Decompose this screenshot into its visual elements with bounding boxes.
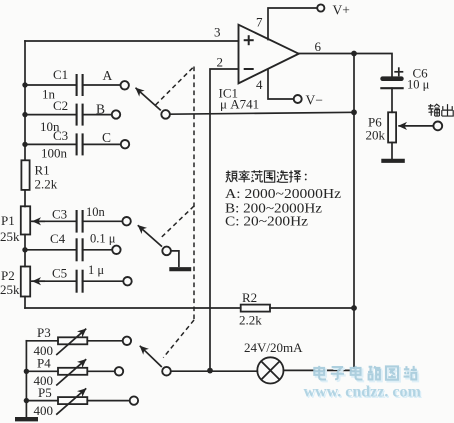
svg-text:24V/20mA: 24V/20mA <box>244 340 303 355</box>
svg-text:www. cndzz. com: www. cndzz. com <box>304 384 422 401</box>
svg-text:P5: P5 <box>38 385 52 400</box>
svg-text:10n: 10n <box>86 205 106 219</box>
svg-text:7: 7 <box>256 15 263 30</box>
svg-text:C2: C2 <box>53 98 68 113</box>
svg-text:μ A741: μ A741 <box>220 97 259 112</box>
svg-text:B: B <box>96 102 105 117</box>
svg-text:P1: P1 <box>1 213 15 228</box>
svg-text:C3: C3 <box>52 207 67 222</box>
svg-text:2.2k: 2.2k <box>35 177 58 192</box>
svg-text:400: 400 <box>34 403 54 418</box>
svg-text:P4: P4 <box>37 355 51 370</box>
svg-text:C: 20~200Hz: C: 20~200Hz <box>225 214 308 229</box>
svg-text:C4: C4 <box>50 231 66 246</box>
svg-text:C1: C1 <box>53 67 68 82</box>
svg-text:A: A <box>103 68 113 83</box>
svg-text:1 μ: 1 μ <box>88 263 104 277</box>
svg-text:V−: V− <box>306 93 323 108</box>
svg-text:R1: R1 <box>35 163 50 178</box>
svg-text:2.2k: 2.2k <box>239 313 262 328</box>
svg-text:25k: 25k <box>0 282 20 297</box>
svg-text:3: 3 <box>214 25 221 40</box>
svg-text:V+: V+ <box>333 3 350 18</box>
svg-text:C: C <box>102 130 111 145</box>
svg-text:R2: R2 <box>242 290 257 305</box>
svg-text:A: 2000~20000Hz: A: 2000~20000Hz <box>225 186 341 201</box>
svg-text:20k: 20k <box>366 128 386 143</box>
svg-text:C3: C3 <box>53 128 68 143</box>
svg-text:2: 2 <box>217 55 224 70</box>
svg-text:4: 4 <box>256 77 263 92</box>
svg-text:6: 6 <box>315 39 322 54</box>
svg-text:100n: 100n <box>41 146 68 161</box>
svg-text:10 μ: 10 μ <box>407 78 430 92</box>
svg-text:P2: P2 <box>1 268 15 283</box>
svg-text:0.1 μ: 0.1 μ <box>90 232 116 246</box>
svg-text:P3: P3 <box>37 325 51 340</box>
svg-text:C5: C5 <box>52 266 67 281</box>
svg-text:25k: 25k <box>0 229 20 244</box>
